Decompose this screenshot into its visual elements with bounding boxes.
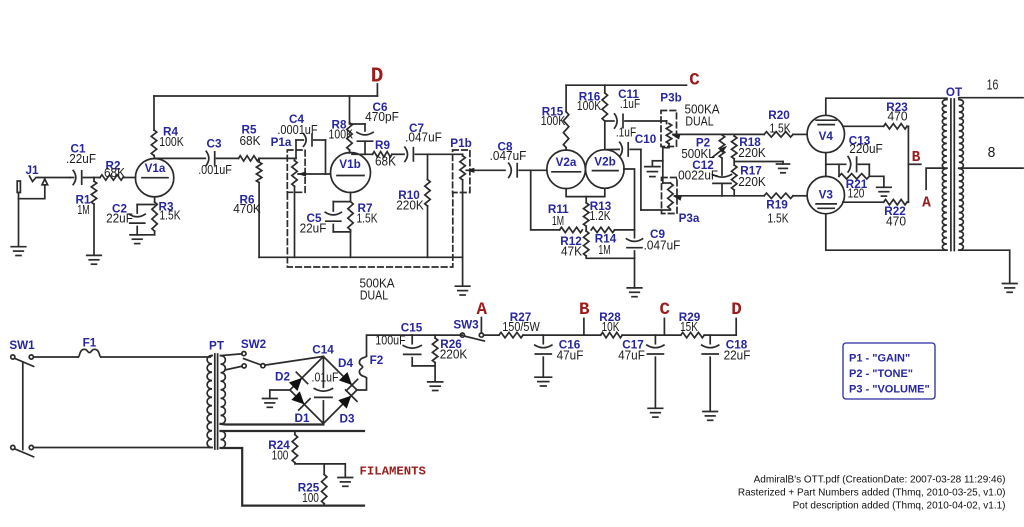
ground (R21/C13) [877, 186, 892, 188]
wire [352, 153, 373, 155]
potentiometer P3b element [660, 92, 681, 184]
svg-text:AdmiralB's OTT.pdf (CreationDa: AdmiralB's OTT.pdf (CreationDate: 2007-0… [754, 474, 1006, 485]
svg-text:100: 100 [302, 491, 319, 505]
ground (C18) [703, 411, 718, 413]
svg-text:1.2K: 1.2K [589, 209, 611, 223]
potentiometer P3a wiper [673, 196, 722, 201]
svg-text:P2 - "TONE": P2 - "TONE" [849, 368, 913, 380]
tube V4 [807, 115, 844, 152]
svg-text:SW2: SW2 [241, 338, 267, 351]
ground (C9) [627, 287, 642, 289]
fuse F1 [78, 337, 101, 358]
svg-text:47uF: 47uF [557, 348, 584, 362]
resistor R16 100K [577, 85, 608, 150]
svg-text:.047uF: .047uF [490, 149, 527, 163]
svg-text:100K: 100K [577, 99, 602, 113]
wire [357, 378, 367, 390]
svg-text:470: 470 [888, 110, 908, 124]
wire (16 ohm tap) [959, 97, 1023, 99]
svg-text:DUAL: DUAL [685, 115, 713, 129]
wire [583, 318, 585, 335]
svg-text:22uF: 22uF [300, 222, 327, 236]
credits text [738, 474, 1006, 511]
svg-text:F2: F2 [370, 354, 384, 367]
wire [959, 250, 1010, 283]
svg-text:R9: R9 [375, 139, 390, 152]
capacitor C17 47uF [618, 335, 664, 408]
potentiometer P1b element [450, 137, 471, 257]
svg-text:100K: 100K [159, 135, 184, 149]
svg-text:DUAL: DUAL [360, 289, 388, 303]
svg-text:1M: 1M [598, 243, 610, 257]
svg-text:PT: PT [209, 340, 225, 353]
svg-text:.1uF: .1uF [616, 126, 637, 140]
svg-text:R19: R19 [766, 199, 788, 212]
svg-text:.1uF: .1uF [620, 97, 641, 111]
wire (B+ rail) [412, 334, 462, 336]
potentiometer P2 500KL [681, 135, 727, 175]
svg-text:47K: 47K [561, 245, 583, 259]
wire (bridge edges) [290, 357, 357, 424]
fuse F2 [359, 354, 383, 378]
capacitor C12 .0022uF [675, 159, 732, 196]
resistor R10 220K [396, 154, 430, 257]
svg-text:C14: C14 [312, 344, 334, 357]
potentiometer P1a wiper [298, 171, 331, 176]
svg-text:22uF: 22uF [724, 348, 751, 362]
wire [652, 160, 662, 162]
capacitor C8 .047uF [490, 140, 547, 177]
wire (center tap) [926, 168, 947, 189]
capacitor C7 .047uF [405, 122, 463, 161]
wire [734, 161, 783, 163]
ground (C15/R26) [428, 381, 443, 383]
resistor R4 100K [151, 96, 184, 158]
svg-text:220K: 220K [738, 146, 766, 160]
svg-text:R20: R20 [768, 109, 790, 122]
capacitor C15 100uF [375, 322, 435, 366]
svg-text:100K: 100K [541, 114, 566, 128]
diode D3 [338, 390, 357, 426]
capacitor C16 47uF [535, 335, 584, 377]
svg-text:100K: 100K [329, 128, 354, 142]
svg-text:D2: D2 [275, 371, 290, 384]
resistor R18 220K [732, 134, 767, 165]
svg-text:47uF: 47uF [618, 348, 645, 362]
transformer PT core [214, 354, 216, 449]
wire (drive line lower) [722, 195, 764, 197]
svg-text:V1b: V1b [339, 158, 360, 171]
resistor R12 47K [560, 230, 634, 259]
wire [221, 423, 324, 426]
svg-text:220K: 220K [738, 175, 766, 189]
wire [484, 334, 500, 336]
resistor R9 68K [373, 139, 405, 169]
svg-text:F1: F1 [83, 337, 97, 350]
capacitor C13 220uF [826, 135, 883, 177]
wire [908, 163, 920, 165]
svg-text:Pot description added (Thmq, 2: Pot description added (Thmq, 2010-04-02,… [793, 501, 1006, 512]
wire [39, 177, 70, 179]
wire [270, 390, 290, 398]
capacitor C2 22uF [106, 203, 155, 235]
svg-text:1.5K: 1.5K [767, 212, 789, 226]
svg-text:470K: 470K [233, 202, 261, 216]
wire (ground bus) [259, 256, 463, 258]
svg-text:P3a: P3a [679, 212, 700, 225]
svg-text:V2b: V2b [594, 156, 615, 169]
potentiometer P3a (dashed box) [662, 178, 678, 214]
ground (R17/R18) [777, 162, 790, 173]
svg-text:D1: D1 [295, 412, 310, 425]
svg-text:V2a: V2a [556, 156, 577, 169]
svg-text:.0022uF: .0022uF [675, 168, 719, 182]
wire [531, 170, 560, 230]
ground (R24) [338, 477, 353, 479]
resistor R15 100K [541, 85, 569, 150]
diode D4 [338, 357, 358, 391]
resistor R8 100K [329, 96, 354, 153]
transformer OT secondary [959, 100, 964, 251]
svg-text:A: A [476, 300, 487, 320]
capacitor C9 .047uF [627, 228, 681, 288]
wire (filament rail 2) [221, 448, 365, 506]
wire [376, 84, 378, 96]
switch SW3 [453, 319, 484, 342]
wire [826, 214, 947, 250]
svg-text:C: C [689, 71, 700, 91]
wire (drive line upper) [722, 133, 764, 135]
transformer OT primary [942, 100, 947, 251]
wire [825, 153, 827, 177]
svg-text:C3: C3 [207, 138, 222, 151]
wire [480, 318, 482, 334]
svg-text:68K: 68K [375, 155, 397, 169]
diode D2 [275, 371, 308, 391]
svg-text:SW3: SW3 [453, 319, 479, 332]
resistor R20 1.5K [764, 109, 807, 137]
ground (V1a cathode) [130, 234, 145, 236]
svg-text:22uF: 22uF [106, 212, 133, 226]
svg-text:220K: 220K [396, 199, 424, 213]
svg-text:15K: 15K [680, 320, 698, 334]
resistor R3 1.5K [152, 197, 181, 235]
svg-text:B: B [912, 150, 921, 166]
svg-text:V3: V3 [819, 188, 834, 201]
wire [155, 157, 206, 159]
svg-text:P3b: P3b [660, 92, 681, 105]
svg-text:8: 8 [988, 145, 996, 161]
wire [33, 356, 78, 358]
potentiometer P1a element [271, 136, 298, 257]
svg-text:J1: J1 [25, 164, 39, 177]
svg-text:1M: 1M [552, 214, 564, 228]
legend box [843, 343, 935, 399]
wire [221, 354, 242, 356]
switch SW1 [9, 339, 35, 457]
wire (8 ohm tap) [959, 167, 1023, 169]
resistor R17 220K [732, 165, 767, 196]
wire [210, 356, 212, 358]
svg-text:C10: C10 [635, 133, 657, 146]
transformer OT core [950, 99, 952, 251]
svg-text:68K: 68K [240, 134, 262, 148]
svg-text:1.5K: 1.5K [356, 212, 378, 226]
resistor R28 10K [599, 311, 681, 338]
tube V2a [547, 150, 586, 189]
wire [225, 366, 242, 370]
wire (filament rail 1) [221, 430, 365, 432]
svg-text:P1a: P1a [271, 136, 292, 149]
capacitor C1 .22uF [66, 143, 96, 185]
connector J1 input jack [17, 164, 47, 199]
resistor R21 120 [839, 164, 884, 200]
resistor R1 1M [76, 178, 97, 256]
wire [33, 447, 210, 449]
resistor R24 100 [268, 431, 345, 477]
wire [735, 318, 737, 335]
diode D1 [291, 391, 310, 425]
resistor R19 1.5K [764, 193, 807, 225]
svg-text:P1b: P1b [450, 137, 471, 150]
svg-text:P3 - "VOLUME": P3 - "VOLUME" [849, 384, 930, 396]
svg-text:D3: D3 [340, 413, 355, 426]
svg-text:V4: V4 [819, 130, 834, 143]
potentiometer P1b wiper [466, 168, 505, 173]
ground (J1) [11, 246, 26, 248]
svg-text:A: A [922, 196, 931, 212]
svg-text:120: 120 [848, 187, 865, 201]
svg-text:C: C [659, 300, 670, 320]
resistor R2 68K [94, 159, 136, 180]
svg-text:1M: 1M [77, 203, 89, 217]
tube V3 [807, 176, 844, 213]
svg-text:V1a: V1a [145, 162, 166, 175]
ground (OT secondary) [1002, 283, 1017, 285]
wire [101, 356, 210, 358]
capacitor C18 22uF [702, 335, 751, 411]
svg-text:470pF: 470pF [365, 110, 399, 124]
svg-text:.047uF: .047uF [405, 131, 442, 145]
ground (stage bus) [455, 285, 470, 287]
tube V1b [331, 153, 371, 193]
wire (C rail) [566, 84, 686, 86]
resistor R13 1.2K [584, 197, 612, 230]
svg-text:100uF: 100uF [375, 334, 406, 348]
resistor R25 100 [298, 464, 327, 506]
switch SW2 [241, 338, 267, 368]
wire (screen rail) [907, 126, 909, 202]
resistor R6 470K [233, 158, 262, 257]
svg-text:10K: 10K [602, 320, 620, 334]
svg-text:100: 100 [272, 449, 289, 463]
svg-text:D: D [731, 300, 742, 320]
tube V1a [135, 159, 173, 197]
svg-text:FILAMENTS: FILAMENTS [360, 464, 426, 478]
svg-text:.01uF: .01uF [312, 371, 339, 385]
resistor R22 470 [843, 200, 909, 229]
wire (D rail) [154, 95, 377, 97]
resistor R29 15K [679, 311, 736, 338]
svg-text:.22uF: .22uF [66, 152, 96, 166]
wire [18, 199, 20, 247]
svg-text:.0001uF: .0001uF [277, 123, 317, 137]
ground (C16) [535, 376, 552, 378]
transformer PT primary [207, 356, 212, 448]
capacitor C3 .001uF [198, 138, 238, 177]
wire [265, 357, 323, 366]
svg-text:1.5K: 1.5K [159, 208, 181, 222]
potentiometer P3b (dashed box) [661, 111, 677, 147]
resistor R11 1M [548, 203, 582, 233]
svg-text:1.5K: 1.5K [769, 122, 791, 136]
svg-text:16: 16 [987, 78, 999, 94]
wire [826, 98, 947, 115]
svg-text:D4: D4 [338, 357, 353, 370]
svg-text:.001uF: .001uF [198, 163, 232, 177]
transformer PT filament secondary [221, 431, 226, 448]
dual pot 500KA outline [287, 194, 452, 303]
svg-text:150/5W: 150/5W [502, 320, 540, 334]
svg-text:220uF: 220uF [849, 142, 883, 156]
wire [367, 335, 413, 356]
svg-text:Rasterized + Part Numbers adde: Rasterized + Part Numbers added (Thmq, 2… [738, 488, 1006, 499]
svg-text:B: B [579, 300, 590, 320]
wire [322, 424, 324, 425]
capacitor C11 .1uF [605, 88, 667, 128]
capacitor C6 470pF [350, 101, 400, 154]
resistor R27 150/5W [499, 311, 601, 338]
potentiometer P1b (dashed box) [453, 150, 470, 193]
wire [210, 447, 212, 449]
svg-text:470: 470 [886, 215, 906, 229]
ground (bridge) [263, 398, 278, 400]
resistor R23 470 [843, 101, 909, 129]
resistor R26 220K [432, 335, 467, 381]
ground (R1) [87, 254, 102, 256]
capacitor C14 .01uF [312, 344, 339, 424]
resistor R5 68K [239, 124, 297, 161]
capacitor C5 22uF [300, 202, 351, 236]
tube V2b [586, 150, 625, 189]
potentiometer P3a element [663, 183, 700, 225]
capacitor C10 .1uF [607, 126, 671, 211]
ground (volume pot) [645, 161, 660, 177]
wire [663, 318, 665, 335]
svg-text:220K: 220K [440, 348, 468, 362]
svg-text:D: D [371, 66, 384, 89]
potentiometer P3b wiper [672, 134, 723, 139]
capacitor C4 .0001uF [277, 113, 325, 174]
svg-text:P1 - "GAIN": P1 - "GAIN" [849, 353, 910, 365]
resistor R14 1M [591, 227, 634, 257]
wire [462, 257, 464, 286]
svg-text:SW1: SW1 [9, 339, 35, 352]
wire [624, 169, 635, 238]
wire [566, 188, 605, 196]
resistor R7 1.5K [348, 193, 378, 258]
potentiometer P1a (dashed box) [287, 150, 305, 192]
transformer PT HV secondary [221, 356, 226, 424]
ground (C17) [648, 407, 663, 409]
svg-text:.047uF: .047uF [644, 239, 681, 253]
